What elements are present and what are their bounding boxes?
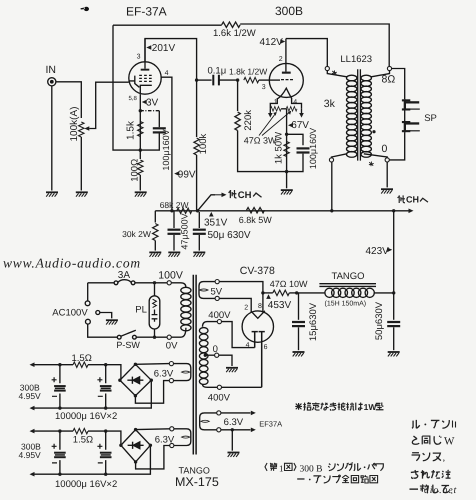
node PL bottom [153, 336, 156, 339]
svg-text:IN: IN [46, 64, 57, 76]
svg-text:100μ160V: 100μ160V [161, 129, 171, 170]
hum-balance network 47ohm 3W x2 [270, 98, 301, 109]
svg-text:300B: 300B [275, 4, 303, 18]
caption line 1 [265, 463, 383, 475]
ground (30k) [149, 252, 161, 256]
other channel label at 423V rail [398, 195, 428, 205]
wire 5V bottom to pin2 [219, 298, 251, 311]
diode symbol 1 [127, 379, 143, 381]
453V arrow [266, 294, 271, 299]
node choke right [392, 291, 395, 294]
node 351V [196, 209, 199, 212]
svg-text:3: 3 [262, 84, 266, 91]
300B plate wire to OPT [286, 39, 327, 67]
OPT ink blob [372, 130, 375, 133]
node A (EF37A plate / 0.1u / 100k) [195, 78, 198, 81]
EF37A heater wires [221, 413, 251, 430]
OPT LL1623 primary terminal top [325, 66, 329, 70]
capacitor 50u630V (choke out) [393, 293, 395, 320]
cathode bypass takeoff (dash-dot) [139, 109, 142, 112]
svg-text:68k 2W: 68k 2W [160, 200, 189, 210]
node choke feed [392, 209, 395, 212]
svg-text:CH: CH [406, 195, 419, 205]
volume pot 100k(A) [79, 122, 84, 137]
svg-text:6.3V: 6.3V [155, 435, 175, 446]
MX-175 primary winding [171, 283, 186, 288]
bridge rectifier 1 [120, 364, 151, 395]
resistor 1.5ohm (2) [73, 428, 88, 433]
resistor 30k 2W [154, 211, 156, 223]
wire node to coupling cap [197, 79, 212, 81]
ground (50u630V choke) [388, 352, 400, 356]
svg-text:47Ω 3W: 47Ω 3W [244, 135, 277, 145]
capacitor 100u160V (300B cathode) [297, 147, 310, 153]
300B plate bar [282, 72, 291, 74]
svg-text:(15H 150mA): (15H 150mA) [325, 300, 367, 308]
node E [285, 170, 288, 173]
svg-text:5V: 5V [211, 286, 223, 297]
svg-text:,: , [443, 453, 446, 464]
MX-175 6.3V winding B (left) [174, 429, 191, 446]
svg-text:400V: 400V [208, 310, 231, 321]
svg-text:3k: 3k [324, 98, 336, 110]
svg-text:3: 3 [137, 54, 141, 61]
svg-text:5,8: 5,8 [129, 95, 138, 102]
ground (input jack) [46, 192, 58, 196]
svg-text:412V: 412V [260, 37, 284, 48]
rail arrow to other channel [409, 209, 414, 214]
node primary B+ [330, 209, 333, 212]
svg-text:201V: 201V [152, 43, 176, 54]
capacitor 100u160V cathode bypass [153, 127, 166, 133]
wire 0 terminal to ground [386, 162, 388, 187]
AC plug terminals [87, 283, 89, 301]
svg-text:1.6k 1/2W: 1.6k 1/2W [213, 28, 256, 39]
resistor 1k 50W [284, 142, 289, 157]
svg-text:4: 4 [293, 99, 297, 106]
node screen divider [170, 209, 173, 212]
svg-text:3A: 3A [118, 270, 131, 281]
resistor 47ohm 10W [273, 290, 290, 295]
svg-text:6.3V: 6.3V [224, 417, 244, 428]
speaker line from 8ohm [392, 69, 405, 100]
svg-text:6: 6 [264, 344, 268, 351]
ground (EF37A heater) [228, 453, 240, 457]
capacitor 10000u16V x2 (1b) [105, 365, 107, 408]
svg-text:www.Audio-audio.com: www.Audio-audio.com [3, 256, 141, 271]
ground (300B cathode) [281, 190, 293, 194]
EF-37A plate bar [141, 69, 150, 71]
ink speck artifact top-left [81, 7, 90, 11]
svg-text:AC100V: AC100V [52, 308, 88, 319]
svg-text:100V: 100V [158, 269, 183, 281]
svg-text:MX-175: MX-175 [175, 475, 219, 489]
capacitor 10000u16V x2 (1a) [59, 365, 61, 408]
DC- rail 2 [34, 445, 151, 474]
351V arrow [209, 212, 214, 217]
resistor 1.6k 1/2W [222, 22, 240, 27]
svg-text:3V: 3V [146, 98, 159, 109]
OPT phase dot secondary [369, 162, 374, 167]
pot wiper arrow and wire to grid [84, 126, 89, 131]
svg-text:1k 50W: 1k 50W [273, 132, 284, 164]
bridge1 AC wires to 6.3V A [135, 363, 169, 366]
node C (cathode junction, NFB) [139, 148, 142, 151]
ground (50u630V) [193, 252, 205, 256]
svg-text:P-SW: P-SW [116, 340, 140, 350]
svg-text:300 B: 300 B [300, 464, 323, 474]
svg-text:351V: 351V [204, 217, 228, 228]
ground (OPT 0) [381, 189, 393, 193]
svg-text:100μ160V: 100μ160V [308, 128, 318, 169]
svg-text:100Ω: 100Ω [129, 159, 140, 182]
svg-text:EF37A: EF37A [259, 420, 282, 429]
other channel takeoff at 351V [198, 195, 216, 211]
svg-text:EF-37A: EF-37A [126, 5, 167, 19]
svg-text:50μ 630V: 50μ 630V [208, 230, 251, 241]
svg-text:67V: 67V [291, 120, 309, 131]
OPT secondary winding [371, 71, 389, 77]
svg-text:1.5Ω: 1.5Ω [73, 435, 93, 446]
wire jack to volume pot [56, 82, 81, 118]
svg-text:SP: SP [424, 113, 437, 124]
MX-175 5V winding [199, 282, 215, 299]
B+ rail 423V [155, 210, 409, 212]
svg-text:0.1μ: 0.1μ [208, 66, 227, 77]
CV-378 plate pin6 [259, 332, 265, 388]
svg-text:10000μ 16V×2: 10000μ 16V×2 [55, 411, 117, 422]
svg-text:2: 2 [279, 56, 283, 63]
svg-text:LL1623: LL1623 [340, 54, 372, 65]
OPT phase dot primary [332, 70, 337, 75]
NFB top line with resistor 1.6k 1/2W [113, 24, 389, 66]
wire cap to 300B grid node [219, 79, 238, 81]
AC line top wire [88, 282, 167, 284]
wire rail down to choke [393, 211, 395, 293]
svg-text:1.5k: 1.5k [126, 120, 137, 140]
MX-175 6.3V winding C (right, EF37A) [200, 413, 217, 430]
capacitor 50u630V (351V) [198, 212, 200, 228]
svg-text:PL: PL [135, 304, 147, 315]
node B (300B grid / 220k) [236, 78, 239, 81]
EF-37A screen grid dashes [139, 75, 151, 81]
node CV378 cathode [261, 291, 264, 294]
svg-text:30k 2W: 30k 2W [122, 229, 151, 239]
svg-text:6.8k 5W: 6.8k 5W [239, 215, 273, 225]
svg-text:400V: 400V [208, 393, 231, 404]
svg-text:W: W [444, 436, 455, 448]
svg-text:0V: 0V [166, 341, 178, 352]
300B filament [278, 88, 292, 98]
svg-text:423V: 423V [366, 246, 390, 257]
resistor 1.5ohm (1) [73, 362, 88, 367]
NFB wire from 1.6k down to cathode [113, 25, 140, 150]
svg-text:99V: 99V [178, 170, 196, 181]
svg-text:0: 0 [382, 143, 388, 155]
MX-175 core [193, 275, 196, 455]
svg-text:47Ω 10W: 47Ω 10W [270, 279, 308, 289]
svg-text:10000μ 16V×2: 10000μ 16V×2 [55, 479, 117, 490]
input jack IN [48, 78, 56, 86]
DC+ rail 2 [34, 431, 121, 445]
svg-text:TANGO: TANGO [332, 271, 365, 282]
capacitor 47u500V [173, 211, 175, 228]
tube 300B envelope [269, 63, 303, 97]
ground (47u500V) [168, 252, 180, 256]
ground (volume pot) [76, 192, 88, 196]
MX-175 primary terminal bottom [167, 335, 171, 339]
fuse 3A [114, 281, 118, 285]
resistor 68k 2W [177, 208, 192, 213]
OPT primary winding [327, 71, 347, 77]
svg-text:4.95V: 4.95V [19, 391, 42, 401]
EF-37A control grid [129, 76, 140, 88]
wire pin6 to 400V bottom [219, 386, 261, 388]
svg-text:8Ω: 8Ω [382, 74, 396, 86]
SP terminal + [402, 99, 420, 110]
300B plate lead (pin 2) [285, 39, 287, 72]
svg-text:CV-378: CV-378 [240, 265, 275, 277]
magazine body text column [409, 420, 455, 497]
svg-text:.: . [451, 486, 454, 497]
svg-text:4: 4 [165, 70, 169, 77]
tube EF-37A envelope [129, 62, 161, 94]
MX-175 HV winding 400-0-400 [203, 322, 218, 327]
arrows to filament supply [270, 109, 301, 114]
EF37A screen wire (pin 4) [161, 77, 172, 211]
OPT core [358, 69, 361, 160]
300B cathode center tap [286, 109, 288, 172]
svg-text:4.95V: 4.95V [19, 450, 42, 460]
capacitor 10000u16V x2 (2a) [59, 431, 61, 474]
svg-text:1: 1 [274, 99, 278, 106]
DC- rail 1 [34, 380, 152, 408]
capacitor 15u630V [298, 293, 300, 320]
ground (100ohm) [135, 192, 147, 196]
EF37A cathode lead [139, 94, 141, 150]
choke winding [325, 288, 334, 297]
power switch P-SW [117, 335, 121, 339]
MX-175 primary terminal top [167, 281, 171, 285]
SP terminal - [402, 121, 420, 132]
CV-378 plate pin4 [252, 332, 258, 348]
svg-text:2: 2 [244, 305, 248, 312]
ground (HV center tap) [226, 368, 238, 372]
bridge rectifier 2 [121, 430, 150, 462]
MX-175 6.3V winding A (left) [174, 364, 191, 381]
svg-text:1.8k 1/2W: 1.8k 1/2W [229, 67, 267, 77]
node choke left [295, 291, 298, 294]
resistor 100k plate load [196, 80, 198, 137]
grid leak 220k [237, 80, 239, 111]
svg-text:8: 8 [258, 303, 262, 310]
pointer lines from 47ohm 3W label [259, 111, 291, 135]
ground (15u630V) [293, 352, 305, 356]
resistor 100ohm [139, 150, 141, 159]
choke TANGO 15H150mA core [319, 284, 376, 287]
OPT secondary terminal 0 [385, 158, 389, 162]
note: resistors without spec are 1W type [295, 402, 383, 412]
OPT secondary terminal 8 ohm [387, 66, 391, 70]
resistor 6.8k 5W [247, 208, 265, 213]
tube CV-378 envelope [242, 311, 273, 342]
svg-text:50μ630V: 50μ630V [374, 301, 385, 340]
svg-text:100k(A): 100k(A) [69, 106, 80, 141]
resistor 1.8k 1/2W [244, 77, 259, 82]
diode symbol 2 [128, 444, 144, 446]
svg-text:4: 4 [246, 342, 250, 349]
EF-37A cathode [140, 85, 152, 94]
HV center tap 0 [204, 354, 207, 357]
svg-text:CH: CH [238, 190, 252, 201]
wire 400V top to pin4 [219, 322, 254, 348]
other channel label at 351V [229, 190, 262, 201]
capacitor 0.1u coupling [213, 75, 219, 86]
earth terminal [96, 311, 100, 315]
bridge2 AC wires to 6.3V B [136, 428, 170, 431]
caption line 2 [297, 475, 377, 483]
wire jack to ground [51, 86, 53, 191]
pilot lamp PL [149, 296, 160, 329]
node PL top [153, 281, 156, 284]
svg-text:15μ630V: 15μ630V [308, 302, 319, 341]
ground (AC earth) [106, 320, 118, 324]
svg-text:6.3V: 6.3V [154, 368, 174, 379]
OPT primary terminal bottom [329, 158, 333, 162]
svg-text:453V: 453V [268, 300, 292, 311]
svg-text:1: 1 [279, 463, 284, 473]
svg-text:47μ500V: 47μ500V [179, 213, 189, 249]
423V arrow [387, 248, 392, 253]
svg-text:1W: 1W [364, 402, 378, 412]
svg-text:220k: 220k [243, 110, 254, 131]
wire pot bottom to ground [80, 137, 82, 191]
svg-text:100k: 100k [198, 133, 209, 154]
300B grid dashes [281, 79, 293, 81]
node D (cathode / 1k / cap) [285, 133, 288, 136]
EF-37A plate lead (pin 3) [144, 39, 146, 69]
wire 5V top to cathode node [219, 282, 263, 312]
svg-text:1.5Ω: 1.5Ω [72, 353, 92, 364]
resistor 1.5k cathode [138, 122, 143, 137]
CV-378 filament [251, 311, 265, 319]
capacitor 10000u16V x2 (2b) [105, 431, 107, 474]
DC+ rail 1 [34, 365, 121, 381]
plate line to 0.1u node [145, 39, 197, 81]
svg-text:0: 0 [213, 344, 218, 355]
